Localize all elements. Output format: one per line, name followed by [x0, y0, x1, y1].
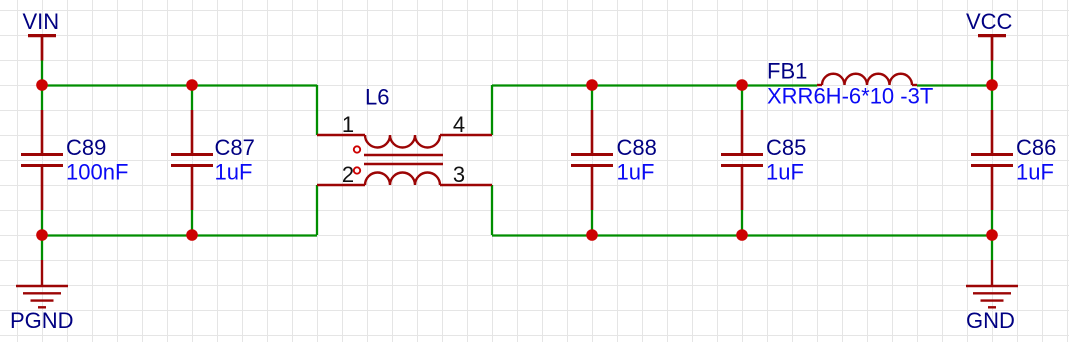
svg-text:L6: L6 [365, 85, 389, 110]
svg-text:VIN: VIN [23, 9, 60, 34]
svg-text:1uF: 1uF [215, 160, 253, 185]
svg-text:C86: C86 [1016, 135, 1056, 160]
svg-text:4: 4 [453, 112, 465, 137]
svg-text:100nF: 100nF [66, 160, 128, 185]
svg-text:PGND: PGND [10, 308, 74, 333]
svg-text:C87: C87 [215, 135, 255, 160]
svg-text:3: 3 [453, 162, 465, 187]
svg-text:1uF: 1uF [766, 160, 804, 185]
svg-text:1uF: 1uF [1016, 160, 1054, 185]
svg-text:XRR6H-6*10 -3T: XRR6H-6*10 -3T [767, 84, 933, 109]
svg-text:GND: GND [966, 308, 1015, 333]
svg-text:1: 1 [342, 112, 354, 137]
svg-text:FB1: FB1 [767, 59, 807, 84]
svg-text:C88: C88 [617, 135, 657, 160]
svg-text:2: 2 [342, 162, 354, 187]
svg-text:VCC: VCC [966, 9, 1013, 34]
svg-text:1uF: 1uF [617, 160, 655, 185]
svg-text:C89: C89 [66, 135, 106, 160]
svg-text:C85: C85 [766, 135, 806, 160]
